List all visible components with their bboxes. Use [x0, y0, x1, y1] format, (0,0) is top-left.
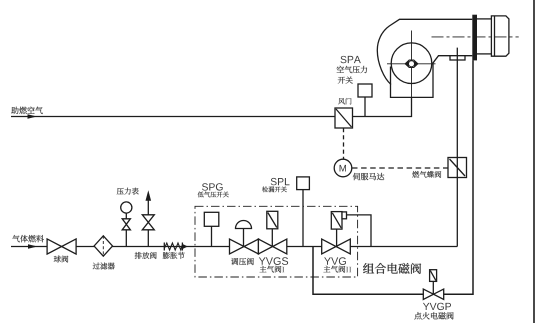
label M: [340, 165, 346, 172]
servo motor M: [334, 159, 352, 177]
label YVG: [324, 257, 346, 265]
label 开关: [338, 76, 353, 83]
wire: SPA stem: [364, 97, 366, 117]
pipe: gas riser to burner (through butterfly valve): [456, 48, 458, 247]
label 检漏开关: [262, 186, 287, 192]
burner centerline: [432, 36, 519, 38]
vent valve 排放阀: [146, 190, 152, 246]
label SPL: [271, 178, 290, 185]
pipe: tee branch down to ignition line: [313, 247, 423, 295]
pressure regulator 调压阀: [236, 221, 252, 247]
wire: YVG pilot line to main pipe: [347, 215, 372, 247]
ignition solenoid valve YVGP: [430, 270, 437, 295]
main gas line: [11, 246, 457, 248]
label 主气阀II: [323, 266, 345, 273]
label SPA: [341, 56, 361, 63]
label 风门: [338, 98, 351, 104]
dashed link: servo motor to butterfly valve: [352, 167, 448, 169]
gas butterfly valve 燃气蝶阀: [448, 158, 467, 178]
combination valve unit boundary (chain line): [195, 206, 358, 277]
label 燃气蝶阀: [412, 171, 441, 178]
leak detect switch SPL: [297, 177, 310, 190]
label 点火电磁阀: [414, 312, 453, 319]
low gas pressure switch SPG: [204, 212, 219, 226]
label 空气压力: [337, 66, 367, 73]
label: gas fuel 气体燃料: [12, 235, 44, 242]
wire: damper to burner air duct: [353, 97, 412, 117]
gas inlet notch: [450, 56, 465, 60]
wire: SPG stem: [211, 226, 213, 246]
pressure gauge 压力表: [121, 202, 132, 247]
burner end cap: [491, 16, 509, 56]
flow arrow on gas line: [28, 244, 38, 249]
pipe: ignition gas riser YVGP to flange: [444, 60, 473, 294]
label 调压阀: [231, 258, 254, 265]
flow arrow on air line: [28, 114, 38, 119]
label YVGP: [423, 303, 451, 310]
expansion joint 膨胀节: [164, 243, 188, 251]
label YVGS: [259, 257, 288, 265]
air damper 风门: [335, 108, 353, 128]
dashed link: damper to servo motor: [343, 128, 345, 159]
label 主气阀I: [260, 266, 282, 273]
wire: SPL stem: [302, 190, 304, 247]
combustion air supply line: [11, 116, 335, 118]
main gas valve I YVGS: [267, 211, 278, 246]
label 低气压开关: [198, 192, 229, 198]
label SPG: [202, 183, 223, 190]
label 伺服马达: [353, 173, 384, 180]
label 组合电磁阀: [363, 263, 421, 274]
burner fan scroll housing: [377, 19, 472, 84]
label 膨胀节: [163, 252, 185, 259]
right border line: [533, 0, 535, 323]
fan crosshair: [387, 31, 436, 117]
filter 过滤器: [94, 236, 112, 256]
air pressure switch SPA: [358, 84, 372, 97]
ball valve 球阀: [47, 239, 76, 254]
main gas valve II YVG: [331, 212, 346, 247]
label 排放阀: [135, 252, 157, 259]
label 球阀: [54, 255, 69, 262]
fan circle: [391, 43, 432, 84]
fan hub: [405, 60, 418, 67]
burner motor body: [391, 56, 473, 98]
label: combustion air 助燃空气: [11, 107, 43, 114]
burner barrel: [477, 19, 491, 54]
label 压力表: [117, 188, 139, 195]
label 过滤器: [93, 263, 115, 270]
burner mount flange: [472, 15, 477, 61]
